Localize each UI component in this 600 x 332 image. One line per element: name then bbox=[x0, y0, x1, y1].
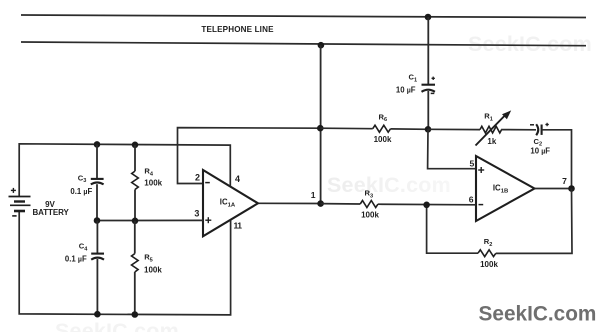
svg-text:100k: 100k bbox=[480, 260, 498, 269]
wire R4 column top bbox=[134, 145, 136, 171]
label pin 11 bbox=[234, 221, 243, 231]
label 100k (R5) bbox=[144, 266, 162, 275]
label BATTERY bbox=[33, 208, 70, 217]
junction middle rail C column bbox=[94, 217, 101, 224]
resistor R6 bbox=[373, 125, 391, 132]
wire node to R1 bbox=[428, 128, 480, 130]
label node 1 bbox=[311, 190, 316, 200]
wire telephone line 1 bbox=[21, 15, 586, 18]
label pin 7 bbox=[562, 176, 567, 186]
label R6 bbox=[379, 112, 388, 123]
svg-text:6: 6 bbox=[469, 195, 474, 205]
label TELEPHONE LINE bbox=[201, 25, 274, 34]
wire pin4 from top rail bbox=[19, 144, 230, 197]
svg-text:100k: 100k bbox=[144, 179, 162, 188]
label pin 6 bbox=[469, 195, 474, 205]
junction feedback x tel2 vertical bbox=[317, 125, 324, 132]
svg-text:4: 4 bbox=[235, 174, 240, 184]
label R3 bbox=[365, 189, 374, 200]
svg-text:2: 2 bbox=[195, 172, 200, 182]
junction bottom rail R column bbox=[132, 311, 139, 318]
svg-text:100k: 100k bbox=[374, 135, 392, 144]
label C2 bbox=[534, 137, 543, 148]
svg-text:SeekIC.com: SeekIC.com bbox=[55, 319, 179, 332]
junction middle rail R column bbox=[132, 218, 139, 225]
wire C3 column bbox=[96, 144, 98, 178]
svg-text:11: 11 bbox=[234, 221, 243, 231]
ghost watermark middle bbox=[327, 173, 451, 197]
wire IC1A pin2 feedback bbox=[178, 128, 321, 184]
junction on line1 at C1 bbox=[425, 14, 432, 21]
resistor R5 bbox=[132, 254, 139, 272]
junction top rail C column bbox=[94, 141, 101, 148]
label 9V bbox=[45, 200, 55, 209]
label 100k (R3) bbox=[361, 210, 379, 219]
op-amp IC1B bbox=[476, 156, 535, 221]
resistor R3 bbox=[360, 201, 378, 208]
label R4 bbox=[144, 167, 153, 178]
svg-text:SeekIC.com: SeekIC.com bbox=[327, 173, 451, 197]
svg-text:SeekIC.com: SeekIC.com bbox=[479, 302, 597, 325]
wire R5 to bottom rail bbox=[134, 272, 136, 315]
wire R2 to output bbox=[496, 189, 572, 254]
junction node 1 bbox=[317, 200, 324, 207]
wire R3 to IC1B pin6 bbox=[378, 203, 476, 206]
wire line1 to C1 bbox=[427, 17, 429, 85]
wire line2 down to node 1 bbox=[320, 45, 322, 203]
capacitor C2 bbox=[530, 123, 549, 135]
label pin 2 bbox=[195, 172, 200, 182]
wire R1 to C2 bbox=[501, 129, 536, 131]
label pin 3 bbox=[194, 209, 199, 219]
label 100k (R2) bbox=[480, 260, 498, 269]
ghost watermark top bbox=[468, 32, 592, 56]
svg-text:TELEPHONE LINE: TELEPHONE LINE bbox=[201, 25, 274, 34]
junction on line2 bbox=[318, 42, 325, 49]
svg-text:10 µF: 10 µF bbox=[396, 86, 416, 95]
wire IC1B output bbox=[535, 188, 572, 190]
watermark SeekIC.com bbox=[479, 302, 597, 325]
svg-text:0.1 µF: 0.1 µF bbox=[65, 255, 87, 264]
wire R5 column top bbox=[134, 221, 136, 254]
capacitor C1 bbox=[422, 77, 436, 94]
label R5 bbox=[144, 253, 153, 264]
wire pin5 branch bbox=[428, 129, 476, 168]
wire R6 to node C1 bbox=[391, 128, 429, 130]
junction C1/R6/R1/pin5 bbox=[425, 126, 432, 133]
label 100k (R4) bbox=[144, 179, 162, 188]
label R1 bbox=[484, 112, 493, 123]
svg-text:7: 7 bbox=[562, 176, 567, 186]
label 10 uF (C1) bbox=[396, 86, 416, 95]
wire C3 to middle rail bbox=[96, 184, 98, 220]
svg-text:100k: 100k bbox=[361, 210, 379, 219]
wire pin11 to bottom rail bbox=[19, 211, 230, 315]
svg-text:BATTERY: BATTERY bbox=[33, 208, 70, 217]
label 100k (R6) bbox=[374, 135, 392, 144]
wire telephone line 2 bbox=[21, 42, 586, 46]
wire C4 column bbox=[96, 221, 98, 254]
label C3 bbox=[78, 173, 87, 184]
junction top rail R column bbox=[132, 142, 139, 149]
svg-text:1: 1 bbox=[311, 190, 316, 200]
label 0.1 uF (C4) bbox=[65, 255, 87, 264]
battery B1 9V bbox=[9, 188, 31, 216]
svg-text:10 µF: 10 µF bbox=[530, 147, 550, 156]
wire node1 to R3 bbox=[321, 203, 361, 205]
label C4 bbox=[79, 242, 88, 253]
svg-text:0.1 µF: 0.1 µF bbox=[70, 187, 92, 196]
junction pin6/R2 bbox=[423, 202, 430, 209]
wire C1 to node bbox=[427, 91, 429, 129]
junction bottom rail C column bbox=[94, 311, 101, 318]
wire C4 to bottom rail bbox=[96, 259, 98, 314]
resistor R1 (variable) bbox=[476, 110, 512, 145]
capacitor C4 bbox=[91, 254, 104, 260]
wire IC1A output to node 1 bbox=[258, 202, 321, 204]
label IC1B bbox=[493, 184, 508, 195]
label 10 uF (C2) bbox=[530, 147, 550, 156]
wire middle rail bbox=[97, 219, 203, 221]
resistor R4 bbox=[132, 171, 139, 189]
svg-text:5: 5 bbox=[470, 158, 475, 168]
svg-text:SeekIC.com: SeekIC.com bbox=[468, 32, 592, 56]
label R2 bbox=[484, 237, 493, 248]
label 1k (R1) bbox=[487, 137, 496, 146]
svg-text:3: 3 bbox=[194, 209, 199, 219]
label pin 4 bbox=[235, 174, 240, 184]
op-amp IC1A bbox=[203, 170, 258, 236]
resistor R2 bbox=[478, 250, 496, 257]
label IC1A bbox=[220, 198, 236, 209]
label pin 5 bbox=[470, 158, 475, 168]
svg-text:1k: 1k bbox=[487, 137, 496, 146]
junction output node 7 bbox=[568, 185, 575, 192]
svg-text:100k: 100k bbox=[144, 266, 162, 275]
wire R4 to middle rail bbox=[134, 190, 136, 221]
label C1 bbox=[409, 73, 418, 84]
wire node to R6 bbox=[320, 127, 372, 130]
label 0.1 uF (C3) bbox=[70, 187, 92, 196]
wire C2 to output node bbox=[542, 130, 572, 189]
ghost watermark bottom-left bbox=[55, 319, 179, 332]
capacitor C3 bbox=[91, 179, 104, 185]
wire R2 feedback loop bbox=[427, 205, 478, 253]
